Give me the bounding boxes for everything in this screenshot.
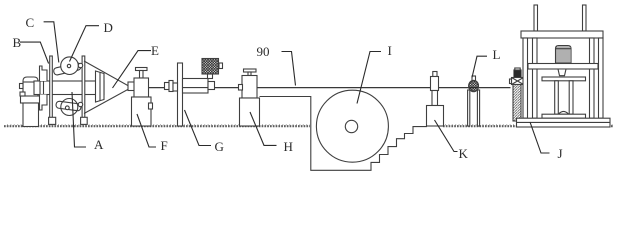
leader J xyxy=(530,122,550,153)
svg-text:I: I xyxy=(388,43,392,58)
jack H lower body xyxy=(240,98,260,126)
leader B xyxy=(20,42,49,63)
svg-text:L: L xyxy=(493,47,501,62)
svg-text:A: A xyxy=(94,137,104,152)
jack K base xyxy=(427,106,444,127)
leader E xyxy=(113,51,152,88)
svg-text:H: H xyxy=(284,139,293,154)
motor pedestal left xyxy=(20,77,41,127)
clamp body xyxy=(512,78,524,85)
svg-text:E: E xyxy=(151,43,159,58)
wheel I hub xyxy=(345,120,357,132)
jack K stem xyxy=(432,91,438,106)
press J table top xyxy=(542,77,586,81)
press J anvil xyxy=(542,114,586,118)
press J base xyxy=(517,118,611,127)
wheel I xyxy=(316,90,388,162)
roller G right nub xyxy=(208,82,215,90)
lower roller wheel xyxy=(61,99,78,116)
stem to motor box xyxy=(208,74,213,79)
left post xyxy=(50,56,53,118)
jack F T-handle xyxy=(136,68,148,71)
svg-text:C: C xyxy=(26,15,35,30)
die block at cone apex xyxy=(128,82,136,91)
extruder barrel A xyxy=(34,81,104,95)
coupling left of G xyxy=(165,83,170,90)
pit under wheel with stairs xyxy=(260,97,428,171)
leader A xyxy=(72,92,86,147)
jack F lower body xyxy=(132,97,152,126)
roller G xyxy=(183,79,209,94)
leader K xyxy=(435,120,458,152)
lower roller housing xyxy=(56,101,82,111)
stand G post xyxy=(178,63,183,126)
svg-text:J: J xyxy=(558,146,563,161)
clamp bolt head xyxy=(514,70,521,78)
leader H xyxy=(250,112,277,145)
svg-text:G: G xyxy=(215,139,224,154)
flange bolt top xyxy=(78,63,82,67)
left post foot xyxy=(49,117,56,124)
jack H T-handle xyxy=(244,69,257,72)
svg-text:K: K xyxy=(459,146,469,161)
leader I xyxy=(357,52,381,104)
leader F xyxy=(137,114,156,147)
press J columns xyxy=(523,38,528,118)
leader D xyxy=(70,26,100,62)
jack H upper body xyxy=(242,76,257,99)
press J top plate xyxy=(521,31,603,38)
jack K knob xyxy=(433,72,437,77)
right post xyxy=(82,56,85,118)
jack F upper body xyxy=(134,78,149,97)
press J mid plate xyxy=(528,64,598,70)
guide wheel L stand legs xyxy=(468,90,470,126)
upper roller wheel xyxy=(61,57,79,75)
lower bracket xyxy=(40,95,48,111)
guide wheel L pulley xyxy=(469,80,479,91)
leader 90 xyxy=(282,52,296,86)
svg-text:B: B xyxy=(13,35,22,50)
extrusion cone E xyxy=(84,61,131,87)
upper roller housing D xyxy=(53,62,81,75)
press J ram funnel xyxy=(558,69,566,76)
ground xyxy=(4,125,613,126)
jack F side nub xyxy=(149,103,153,109)
press J frame rods xyxy=(534,5,538,31)
press J table legs xyxy=(555,81,559,114)
threaded rod xyxy=(513,85,521,122)
jack H left nub xyxy=(239,85,243,91)
leader L xyxy=(472,56,487,77)
svg-text:F: F xyxy=(161,138,168,153)
leader G xyxy=(185,110,212,146)
wire line 90 xyxy=(130,87,511,89)
svg-text:90: 90 xyxy=(257,44,270,59)
workpiece xyxy=(559,111,568,114)
jack K upper body xyxy=(431,77,439,91)
leader C xyxy=(44,22,59,63)
guide wheel L nub xyxy=(472,76,476,81)
right post foot xyxy=(81,117,88,124)
svg-text:D: D xyxy=(104,20,113,35)
crosshatched motor box xyxy=(202,59,219,75)
upper bracket B xyxy=(40,66,48,81)
press J cylinder xyxy=(556,46,572,64)
flange bolt bottom xyxy=(78,102,82,106)
